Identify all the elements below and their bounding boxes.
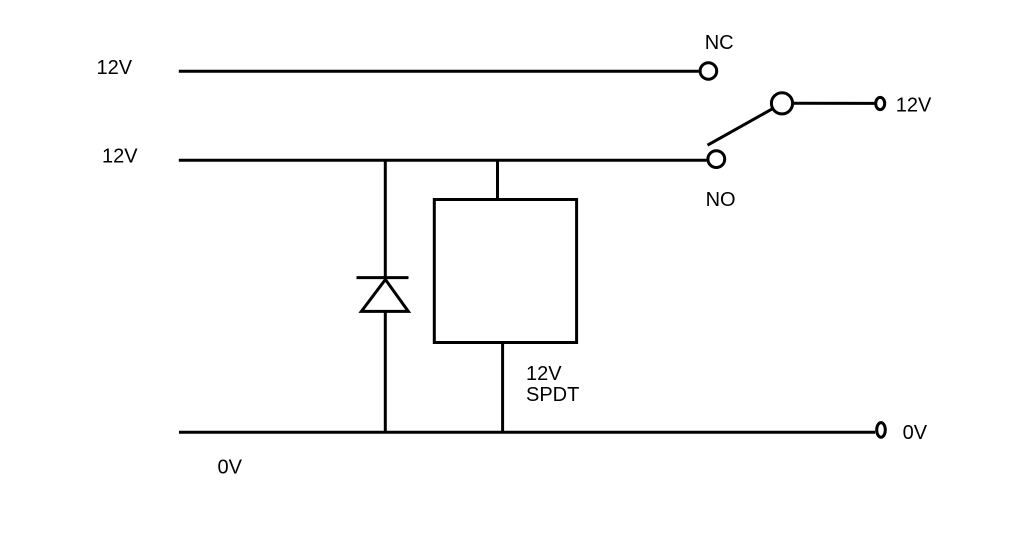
svg-text:0V: 0V [903,422,928,444]
svg-text:NC: NC [705,32,734,54]
svg-text:NO: NO [706,189,736,211]
svg-text:12V: 12V [97,57,133,79]
wire 0V bottom rail [179,431,875,434]
diode D1 cathode bar [357,276,409,279]
wire pole to 12V terminal [794,102,875,105]
svg-text:12V: 12V [102,145,138,167]
switch arm pole to NO [708,109,773,146]
svg-text:0V: 0V [218,456,243,478]
switch pole circle [771,93,792,114]
wire diode branch lower (cathode to 0V rail) [384,311,387,432]
NO contact circle [708,151,725,168]
svg-text:12V: 12V [896,95,932,117]
terminal 12V output [876,97,885,109]
wire diode branch upper (anode to mid rail) [384,160,387,280]
diode D1 triangle [361,280,408,312]
wire 12V top rail to NC contact [179,70,699,73]
NC contact circle [700,63,717,80]
svg-text:12V: 12V [526,363,562,385]
wire relay coil top lead [496,160,499,199]
terminal 0V output [877,423,886,438]
wire 12V mid rail to NO contact [179,159,707,162]
svg-text:SPDT: SPDT [526,384,579,406]
relay coil box 12V SPDT [434,200,576,343]
wire relay coil bottom lead [501,343,504,433]
